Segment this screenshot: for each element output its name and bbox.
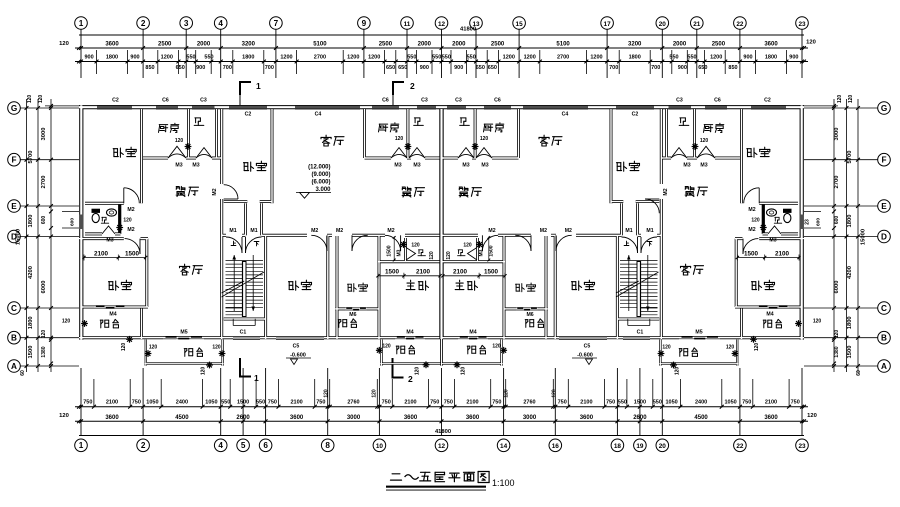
svg-text:2100: 2100 <box>453 269 468 276</box>
svg-text:550: 550 <box>669 55 678 61</box>
svg-text:1500: 1500 <box>489 245 495 256</box>
svg-text:120: 120 <box>324 389 330 398</box>
svg-text:750: 750 <box>268 400 277 406</box>
svg-text:1800: 1800 <box>847 215 853 228</box>
svg-text:A: A <box>11 362 17 371</box>
svg-text:C3: C3 <box>421 98 428 104</box>
svg-text:41800: 41800 <box>435 429 451 435</box>
svg-text:4500: 4500 <box>175 415 189 421</box>
svg-text:13: 13 <box>472 21 480 28</box>
svg-text:6: 6 <box>263 441 268 450</box>
svg-text:D: D <box>881 232 887 241</box>
svg-text:3600: 3600 <box>290 415 304 421</box>
svg-text:M1: M1 <box>229 228 236 234</box>
svg-text:C: C <box>881 304 887 313</box>
svg-text:550: 550 <box>186 55 195 61</box>
svg-text:550: 550 <box>653 400 662 406</box>
svg-text:3600: 3600 <box>764 42 778 48</box>
svg-text:M3: M3 <box>683 163 690 169</box>
svg-text:1: 1 <box>79 19 84 28</box>
svg-text:550: 550 <box>407 55 416 61</box>
svg-text:2000: 2000 <box>418 42 432 48</box>
svg-text:120: 120 <box>395 136 404 142</box>
svg-text:M1: M1 <box>625 228 632 234</box>
svg-text:7: 7 <box>274 19 279 28</box>
svg-text:550: 550 <box>467 55 476 61</box>
svg-text:C2: C2 <box>112 98 119 104</box>
svg-text:M3: M3 <box>106 238 113 244</box>
svg-text:1200: 1200 <box>710 55 722 61</box>
svg-text:2500: 2500 <box>379 42 393 48</box>
svg-text:700: 700 <box>651 65 660 71</box>
svg-text:20: 20 <box>659 443 667 450</box>
svg-text:4200: 4200 <box>847 266 853 279</box>
svg-text:2: 2 <box>141 441 146 450</box>
svg-text:120: 120 <box>429 251 435 260</box>
svg-text:M2: M2 <box>336 228 343 234</box>
svg-text:2700: 2700 <box>834 176 840 189</box>
svg-text:650: 650 <box>398 65 407 71</box>
svg-text:22: 22 <box>736 21 744 28</box>
svg-text:120: 120 <box>751 218 760 224</box>
svg-text:1500: 1500 <box>847 346 853 359</box>
svg-text:4: 4 <box>218 441 223 450</box>
svg-text:2500: 2500 <box>491 42 505 48</box>
svg-text:E: E <box>11 202 17 211</box>
svg-text:120: 120 <box>59 41 69 47</box>
svg-text:900: 900 <box>130 55 139 61</box>
svg-text:120: 120 <box>700 138 709 144</box>
svg-text:2100: 2100 <box>404 400 416 406</box>
svg-text:1500: 1500 <box>387 245 393 256</box>
svg-text:2700: 2700 <box>557 55 569 61</box>
svg-text:900: 900 <box>743 55 752 61</box>
svg-text:120: 120 <box>62 319 71 325</box>
svg-text:M3: M3 <box>700 163 707 169</box>
svg-text:120: 120 <box>212 345 221 351</box>
svg-text:3: 3 <box>184 19 189 28</box>
svg-text:750: 750 <box>382 400 391 406</box>
svg-text:850: 850 <box>145 65 154 71</box>
svg-text:1380: 1380 <box>834 346 840 357</box>
svg-text:650: 650 <box>698 65 707 71</box>
svg-text:C3: C3 <box>200 98 207 104</box>
svg-text:23: 23 <box>805 219 811 225</box>
svg-text:600: 600 <box>70 218 76 226</box>
svg-text:1800: 1800 <box>106 55 118 61</box>
svg-text:3600: 3600 <box>404 415 418 421</box>
svg-text:5: 5 <box>241 441 246 450</box>
svg-text:1500: 1500 <box>484 269 499 276</box>
svg-text:900: 900 <box>789 55 798 61</box>
svg-text:750: 750 <box>791 400 800 406</box>
svg-text:120: 120 <box>59 413 69 419</box>
svg-text:1050: 1050 <box>665 400 677 406</box>
svg-text:750: 750 <box>558 400 567 406</box>
svg-text:G: G <box>881 104 887 113</box>
svg-text:9: 9 <box>362 19 367 28</box>
svg-text:12: 12 <box>438 21 446 28</box>
svg-text:120: 120 <box>175 138 184 144</box>
svg-text:20: 20 <box>659 21 667 28</box>
svg-text:1800: 1800 <box>629 55 641 61</box>
svg-text:3600: 3600 <box>466 415 480 421</box>
svg-text:M2: M2 <box>748 207 755 213</box>
svg-text:G: G <box>11 104 17 113</box>
svg-text:4500: 4500 <box>694 415 708 421</box>
svg-text:2760: 2760 <box>347 400 359 406</box>
svg-text:1200: 1200 <box>280 55 292 61</box>
svg-text:1500: 1500 <box>385 269 400 276</box>
svg-text:6000: 6000 <box>834 281 840 294</box>
svg-text:2100: 2100 <box>106 400 118 406</box>
svg-text:850: 850 <box>728 65 737 71</box>
svg-text:750: 750 <box>606 400 615 406</box>
svg-text:550: 550 <box>256 400 265 406</box>
svg-text:120: 120 <box>149 345 158 351</box>
svg-text:C6: C6 <box>382 98 389 104</box>
svg-text:3600: 3600 <box>580 415 594 421</box>
svg-text:120: 120 <box>411 243 420 249</box>
svg-text:750: 750 <box>742 400 751 406</box>
svg-text:4200: 4200 <box>28 266 34 279</box>
svg-text:M3: M3 <box>192 163 199 169</box>
svg-text:11: 11 <box>404 21 411 28</box>
svg-text:2100: 2100 <box>466 400 478 406</box>
svg-text:2500: 2500 <box>712 42 726 48</box>
svg-text:1500: 1500 <box>237 400 249 406</box>
svg-text:750: 750 <box>492 400 501 406</box>
svg-text:M6: M6 <box>526 312 533 318</box>
svg-text:3200: 3200 <box>242 42 256 48</box>
svg-text:5700: 5700 <box>847 151 853 164</box>
svg-text:(9.000): (9.000) <box>311 172 330 178</box>
svg-text:M2: M2 <box>565 228 572 234</box>
svg-text:600: 600 <box>41 216 47 225</box>
svg-text:2700: 2700 <box>41 176 47 189</box>
svg-text:900: 900 <box>420 65 429 71</box>
svg-text:12: 12 <box>438 443 446 450</box>
svg-text:750: 750 <box>430 400 439 406</box>
svg-text:C1: C1 <box>637 330 644 336</box>
svg-text:F: F <box>11 156 16 165</box>
svg-text:B: B <box>11 334 17 343</box>
svg-text:M1: M1 <box>646 228 653 234</box>
svg-text:900: 900 <box>678 65 687 71</box>
svg-text:C4: C4 <box>315 112 322 118</box>
svg-text:C6: C6 <box>714 98 721 104</box>
svg-text:120: 120 <box>813 319 822 325</box>
svg-text:M2: M2 <box>127 227 134 233</box>
svg-text:1:100: 1:100 <box>492 478 515 488</box>
svg-text:6000: 6000 <box>41 281 47 294</box>
svg-text:10: 10 <box>376 443 384 450</box>
svg-text:900: 900 <box>85 55 94 61</box>
svg-text:C3: C3 <box>455 98 462 104</box>
svg-text:M1: M1 <box>250 228 257 234</box>
svg-text:1800: 1800 <box>28 316 34 329</box>
svg-text:M3: M3 <box>397 249 403 256</box>
svg-text:750: 750 <box>83 400 92 406</box>
svg-text:M2: M2 <box>387 228 394 234</box>
svg-text:M2: M2 <box>212 188 218 195</box>
svg-text:1200: 1200 <box>368 55 380 61</box>
svg-text:3000: 3000 <box>41 128 47 141</box>
svg-text:2000: 2000 <box>197 42 211 48</box>
svg-text:C6: C6 <box>162 98 169 104</box>
svg-text:C6: C6 <box>494 98 501 104</box>
svg-text:120: 120 <box>504 389 510 398</box>
svg-text:120: 120 <box>480 136 489 142</box>
svg-text:17: 17 <box>604 21 612 28</box>
svg-text:750: 750 <box>316 400 325 406</box>
svg-text:120: 120 <box>27 95 33 104</box>
svg-text:550: 550 <box>687 55 696 61</box>
svg-text:120: 120 <box>848 95 854 104</box>
svg-text:120: 120 <box>834 330 840 339</box>
svg-text:M6: M6 <box>349 312 356 318</box>
svg-text:1: 1 <box>79 441 84 450</box>
svg-text:120: 120 <box>371 389 377 398</box>
svg-text:120: 120 <box>675 367 681 376</box>
svg-text:900: 900 <box>196 65 205 71</box>
svg-text:550: 550 <box>442 55 451 61</box>
svg-text:1200: 1200 <box>503 55 515 61</box>
svg-text:M3: M3 <box>769 238 776 244</box>
svg-text:60: 60 <box>856 370 862 376</box>
svg-text:120: 120 <box>806 40 816 46</box>
svg-text:M2: M2 <box>127 207 134 213</box>
svg-text:M4: M4 <box>469 330 476 336</box>
svg-text:2600: 2600 <box>236 415 250 421</box>
svg-text:120: 120 <box>41 330 47 339</box>
svg-text:3000: 3000 <box>834 128 840 141</box>
svg-text:2100: 2100 <box>290 400 302 406</box>
svg-text:550: 550 <box>221 400 230 406</box>
svg-text:C: C <box>11 304 17 313</box>
svg-text:C2: C2 <box>245 112 252 118</box>
svg-text:900: 900 <box>454 65 463 71</box>
svg-text:(12.000): (12.000) <box>308 165 330 171</box>
svg-text:120: 120 <box>201 367 207 376</box>
svg-text:M2: M2 <box>488 228 495 234</box>
svg-text:120: 120 <box>446 251 452 260</box>
svg-text:M2: M2 <box>311 228 318 234</box>
svg-text:1800: 1800 <box>242 55 254 61</box>
svg-text:1800: 1800 <box>28 215 34 228</box>
svg-text:23: 23 <box>798 443 806 450</box>
svg-text:2000: 2000 <box>452 42 466 48</box>
svg-text:M4: M4 <box>406 330 413 336</box>
svg-text:120: 120 <box>382 344 391 350</box>
svg-text:5100: 5100 <box>313 42 327 48</box>
svg-text:18: 18 <box>614 443 622 450</box>
svg-text:1500: 1500 <box>125 250 140 257</box>
svg-text:19: 19 <box>636 443 644 450</box>
svg-text:C2: C2 <box>632 112 639 118</box>
svg-text:3000: 3000 <box>523 415 537 421</box>
svg-text:120: 120 <box>754 343 760 352</box>
svg-text:M3: M3 <box>394 163 401 169</box>
svg-text:16: 16 <box>552 443 560 450</box>
svg-text:M3: M3 <box>479 249 485 256</box>
svg-text:120: 120 <box>463 243 472 249</box>
svg-text:650: 650 <box>386 65 395 71</box>
svg-text:120: 120 <box>726 345 735 351</box>
svg-text:120: 120 <box>662 345 671 351</box>
svg-text:5100: 5100 <box>556 42 570 48</box>
svg-text:700: 700 <box>609 65 618 71</box>
svg-text:2760: 2760 <box>523 400 535 406</box>
svg-text:E: E <box>881 202 887 211</box>
svg-text:1500: 1500 <box>28 346 34 359</box>
svg-text:60: 60 <box>20 370 26 376</box>
svg-text:2100: 2100 <box>765 400 777 406</box>
svg-text:120: 120 <box>551 389 557 398</box>
svg-text:M5: M5 <box>180 330 187 336</box>
svg-text:-0.600: -0.600 <box>577 353 593 359</box>
svg-text:15000: 15000 <box>861 229 867 245</box>
svg-text:2400: 2400 <box>176 400 188 406</box>
svg-text:2700: 2700 <box>314 55 326 61</box>
svg-text:1500: 1500 <box>744 250 759 257</box>
svg-text:750: 750 <box>132 400 141 406</box>
svg-text:C1: C1 <box>240 330 247 336</box>
svg-text:1500: 1500 <box>634 400 646 406</box>
svg-text:C2: C2 <box>764 98 771 104</box>
svg-text:1200: 1200 <box>161 55 173 61</box>
svg-text:1380: 1380 <box>41 346 47 357</box>
svg-text:550: 550 <box>432 55 441 61</box>
svg-text:2100: 2100 <box>94 250 109 257</box>
svg-text:650: 650 <box>476 65 485 71</box>
svg-text:2: 2 <box>408 374 413 384</box>
svg-text:1: 1 <box>256 81 261 91</box>
svg-text:M3: M3 <box>175 163 182 169</box>
svg-text:3200: 3200 <box>628 42 642 48</box>
svg-text:8: 8 <box>325 441 330 450</box>
svg-text:2100: 2100 <box>775 250 790 257</box>
svg-text:C5: C5 <box>584 344 591 350</box>
svg-text:700: 700 <box>223 65 232 71</box>
svg-text:M2: M2 <box>748 227 755 233</box>
svg-text:M4: M4 <box>109 312 116 318</box>
svg-text:B: B <box>881 334 887 343</box>
svg-text:120: 120 <box>123 218 132 224</box>
svg-text:120: 120 <box>807 413 817 419</box>
svg-text:550: 550 <box>618 400 627 406</box>
svg-text:1050: 1050 <box>724 400 736 406</box>
svg-text:15000: 15000 <box>16 229 22 245</box>
svg-text:120: 120 <box>492 344 501 350</box>
svg-text:2000: 2000 <box>673 42 687 48</box>
svg-text:120: 120 <box>121 343 127 352</box>
svg-text:1: 1 <box>254 373 259 383</box>
svg-text:1050: 1050 <box>146 400 158 406</box>
svg-text:F: F <box>881 156 886 165</box>
svg-text:700: 700 <box>265 65 274 71</box>
svg-text:1800: 1800 <box>847 316 853 329</box>
svg-text:1200: 1200 <box>347 55 359 61</box>
svg-text:3000: 3000 <box>347 415 361 421</box>
svg-text:(6.000): (6.000) <box>311 180 330 186</box>
svg-text:1050: 1050 <box>205 400 217 406</box>
svg-text:21: 21 <box>693 21 701 28</box>
svg-text:14: 14 <box>500 443 508 450</box>
svg-text:2400: 2400 <box>695 400 707 406</box>
svg-text:M2: M2 <box>540 228 547 234</box>
svg-text:3600: 3600 <box>105 415 119 421</box>
svg-text:A: A <box>881 362 887 371</box>
svg-text:M3: M3 <box>462 163 469 169</box>
svg-text:1200: 1200 <box>590 55 602 61</box>
svg-text:600: 600 <box>816 218 822 226</box>
svg-text:15: 15 <box>516 21 524 28</box>
svg-text:600: 600 <box>834 216 840 225</box>
svg-text:120: 120 <box>415 367 421 376</box>
svg-text:120: 120 <box>837 95 843 104</box>
svg-text:2100: 2100 <box>416 269 431 276</box>
svg-text:550: 550 <box>204 55 213 61</box>
svg-text:650: 650 <box>488 65 497 71</box>
svg-text:2600: 2600 <box>633 415 647 421</box>
svg-text:2500: 2500 <box>158 42 172 48</box>
svg-text:3600: 3600 <box>105 42 119 48</box>
svg-text:1200: 1200 <box>524 55 536 61</box>
svg-text:M4: M4 <box>766 312 773 318</box>
svg-text:120: 120 <box>461 367 467 376</box>
svg-text:4: 4 <box>218 19 223 28</box>
svg-text:3600: 3600 <box>764 415 778 421</box>
svg-text:2: 2 <box>141 19 146 28</box>
svg-text:22: 22 <box>736 443 744 450</box>
svg-text:750: 750 <box>444 400 453 406</box>
svg-text:2100: 2100 <box>580 400 592 406</box>
svg-text:C4: C4 <box>562 112 569 118</box>
svg-text:23: 23 <box>798 21 806 28</box>
svg-text:M3: M3 <box>481 163 488 169</box>
svg-text:120: 120 <box>38 95 44 104</box>
svg-text:650: 650 <box>176 65 185 71</box>
svg-text:-0.600: -0.600 <box>290 353 306 359</box>
svg-text:C3: C3 <box>676 98 683 104</box>
svg-text:2: 2 <box>410 81 415 91</box>
svg-text:1800: 1800 <box>765 55 777 61</box>
svg-text:5700: 5700 <box>28 151 34 164</box>
svg-text:C5: C5 <box>293 344 300 350</box>
svg-text:M5: M5 <box>695 330 702 336</box>
svg-text:M2: M2 <box>663 188 669 195</box>
svg-text:M3: M3 <box>413 163 420 169</box>
